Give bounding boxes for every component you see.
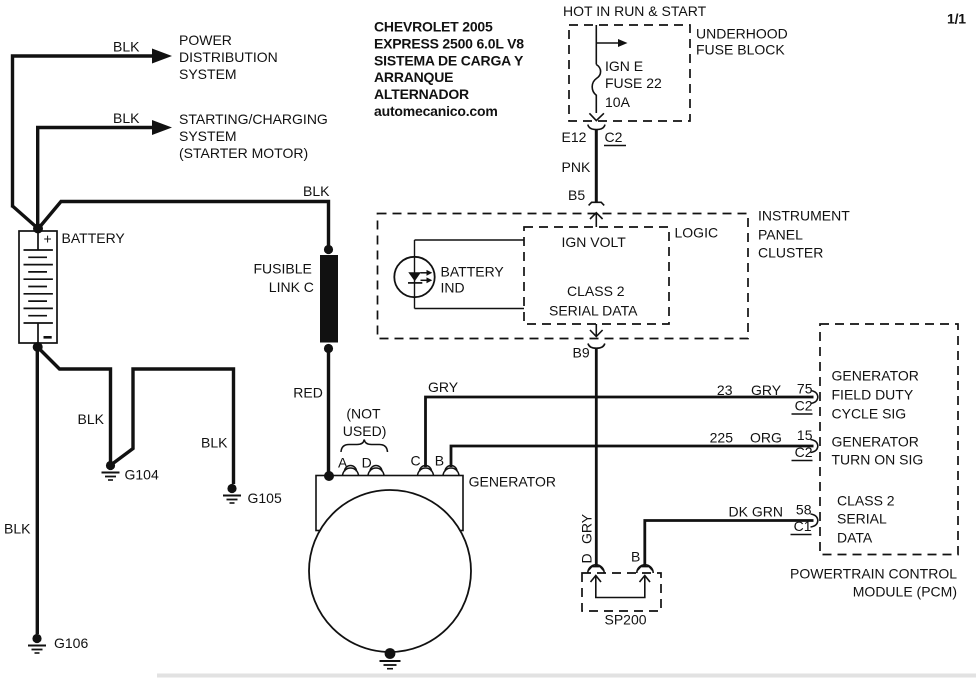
svg-text:C2: C2: [605, 129, 623, 145]
splice SP200: [582, 565, 661, 611]
svg-text:ALTERNADOR: ALTERNADOR: [374, 86, 469, 102]
node generator BAT terminal: [324, 471, 334, 481]
svg-text:FUSIBLE: FUSIBLE: [254, 261, 312, 277]
svg-text:A: A: [338, 455, 348, 471]
svg-text:BATTERY: BATTERY: [62, 230, 126, 246]
svg-text:LINK C: LINK C: [269, 279, 314, 295]
svg-text:B: B: [435, 453, 444, 469]
svg-text:225: 225: [710, 430, 734, 446]
svg-text:BLK: BLK: [113, 39, 140, 55]
label UNDERHOOD FUSE BLOCK: [696, 26, 788, 58]
svg-text:ARRANQUE: ARRANQUE: [374, 69, 453, 85]
svg-text:USED): USED): [343, 423, 387, 439]
svg-text:CLASS 2: CLASS 2: [567, 283, 625, 299]
svg-text:automecanico.com: automecanico.com: [374, 103, 498, 119]
svg-text:DATA: DATA: [837, 530, 873, 546]
label BATTERY IND: [441, 264, 505, 296]
generator pin C terminal: [418, 466, 434, 477]
svg-text:CLASS 2: CLASS 2: [837, 493, 895, 509]
svg-text:SERIAL: SERIAL: [837, 511, 887, 527]
wire ORG generator B to PCM: [451, 446, 814, 467]
wire BLK to power distribution system: [13, 49, 173, 229]
svg-text:EXPRESS 2500 6.0L V8: EXPRESS 2500 6.0L V8: [374, 35, 524, 51]
svg-text:G106: G106: [54, 635, 88, 651]
wire BLK battery to G106: [36, 347, 39, 634]
svg-text:HOT IN RUN & START: HOT IN RUN & START: [563, 3, 707, 19]
wire BLK G104 to G105: [112, 369, 234, 484]
svg-text:BLK: BLK: [4, 521, 31, 537]
fusible link C: [320, 245, 338, 353]
ground G104: [102, 461, 159, 483]
svg-text:CYCLE SIG: CYCLE SIG: [832, 406, 907, 422]
svg-text:CLUSTER: CLUSTER: [758, 245, 823, 261]
svg-text:G104: G104: [125, 467, 159, 483]
wire GRY generator C to PCM: [426, 397, 814, 467]
svg-text:STARTING/CHARGING: STARTING/CHARGING: [179, 111, 328, 127]
svg-text:SYSTEM: SYSTEM: [179, 66, 237, 82]
generator pin A terminal: [343, 466, 359, 477]
ground G106: [28, 634, 88, 653]
title block text: [374, 19, 524, 120]
label CLASS 2 SERIAL DATA (cluster): [549, 283, 638, 319]
svg-text:BLK: BLK: [78, 411, 105, 427]
svg-text:INSTRUMENT: INSTRUMENT: [758, 208, 850, 224]
svg-text:BLK: BLK: [201, 435, 228, 451]
svg-text:+: +: [44, 231, 52, 247]
wire battery ind to logic box: [415, 240, 525, 309]
svg-text:BLK: BLK: [113, 110, 140, 126]
PCM pin 75 C2 connector: [811, 391, 818, 404]
svg-text:(STARTER MOTOR): (STARTER MOTOR): [179, 145, 308, 161]
svg-text:TURN ON SIG: TURN ON SIG: [832, 452, 924, 468]
powertrain control module box: [820, 324, 958, 555]
svg-text:75: 75: [797, 381, 813, 397]
svg-text:PNK: PNK: [562, 159, 591, 175]
svg-text:LOGIC: LOGIC: [675, 225, 719, 241]
brace over unused pins: [341, 440, 388, 453]
svg-text:(NOT: (NOT: [346, 406, 381, 422]
label CLASS 2 SERIAL DATA (pcm): [837, 493, 895, 546]
PCM pin 58 C1 connector: [811, 514, 818, 527]
label (NOT USED): [343, 406, 387, 440]
svg-text:IGN VOLT: IGN VOLT: [562, 234, 627, 250]
wire class 2 serial data B9 to SP200: [595, 348, 598, 566]
label GENERATOR FIELD DUTY CYCLE SIG: [832, 368, 919, 422]
logic box: [524, 227, 669, 324]
svg-text:B5: B5: [568, 187, 585, 203]
svg-text:10A: 10A: [605, 94, 631, 110]
svg-text:GENERATOR: GENERATOR: [832, 434, 919, 450]
svg-text:B: B: [631, 549, 640, 565]
node battery negative junction: [33, 342, 43, 352]
ground G105: [223, 484, 282, 506]
wire BLK battery to G104: [38, 348, 111, 463]
label C2 (underlined): [604, 129, 626, 146]
svg-text:RED: RED: [293, 385, 323, 401]
svg-text:E12: E12: [562, 129, 587, 145]
svg-text:GRY: GRY: [428, 379, 459, 395]
svg-text:BLK: BLK: [303, 183, 330, 199]
generator pin D terminal: [368, 466, 384, 477]
svg-text:IND: IND: [441, 280, 465, 296]
PCM pin 15 C2 connector: [811, 440, 818, 453]
svg-text:GENERATOR: GENERATOR: [832, 368, 919, 384]
svg-text:GENERATOR: GENERATOR: [469, 474, 556, 490]
svg-text:MODULE (PCM): MODULE (PCM): [853, 584, 957, 600]
battery indicator lamp U1: [394, 240, 434, 309]
label GENERATOR TURN ON SIG: [832, 434, 924, 468]
starting/charging system label: [179, 111, 328, 161]
svg-text:SP200: SP200: [605, 612, 647, 628]
label POWERTRAIN CONTROL MODULE (PCM): [790, 566, 957, 600]
fuse IGN E FUSE 22 10A: [592, 65, 600, 114]
svg-text:FUSE BLOCK: FUSE BLOCK: [696, 42, 785, 58]
svg-text:GRY: GRY: [751, 382, 782, 398]
connector B9 exit arrow: [588, 324, 605, 348]
svg-text:CHEVROLET 2005: CHEVROLET 2005: [374, 19, 493, 35]
svg-text:15: 15: [797, 427, 813, 443]
battery symbol: [19, 231, 57, 344]
svg-text:DK GRN: DK GRN: [729, 504, 783, 520]
generator ground: [380, 648, 401, 669]
svg-text:POWER: POWER: [179, 32, 232, 48]
label INSTRUMENT PANEL CLUSTER: [758, 208, 850, 261]
node battery positive junction: [33, 224, 43, 234]
svg-text:C2: C2: [795, 444, 813, 460]
svg-text:FUSE 22: FUSE 22: [605, 75, 662, 91]
instrument panel cluster box: [378, 214, 749, 339]
generator pin B terminal: [443, 466, 459, 477]
svg-text:DISTRIBUTION: DISTRIBUTION: [179, 49, 278, 65]
wire RED fusible link to generator: [327, 352, 330, 472]
svg-text:IGN E: IGN E: [605, 58, 643, 74]
svg-text:C1: C1: [794, 518, 812, 534]
svg-text:GRY: GRY: [579, 513, 595, 544]
svg-text:D: D: [362, 455, 372, 471]
svg-text:B9: B9: [573, 345, 590, 361]
svg-text:G105: G105: [248, 490, 282, 506]
svg-text:BATTERY: BATTERY: [441, 264, 505, 280]
svg-text:POWERTRAIN CONTROL: POWERTRAIN CONTROL: [790, 566, 957, 582]
wire BLK battery to fusible link: [38, 202, 329, 247]
label D GRY (rotated): [579, 513, 595, 563]
svg-text:58: 58: [796, 502, 812, 518]
label C2 (pin 15, underlined): [792, 444, 813, 461]
svg-text:23: 23: [717, 382, 733, 398]
svg-text:FIELD DUTY: FIELD DUTY: [832, 387, 914, 403]
wire feed inside fuse block: [596, 25, 627, 65]
wire BLK to starting/charging system: [38, 120, 172, 229]
svg-text:SERIAL DATA: SERIAL DATA: [549, 303, 638, 319]
wire DK GRN SP200 to PCM: [645, 521, 814, 567]
svg-text:SYSTEM: SYSTEM: [179, 128, 237, 144]
underhood fuse block box: [569, 25, 690, 121]
connector E12/C2 arrow: [588, 113, 605, 129]
svg-text:C2: C2: [795, 398, 813, 414]
label IGN E FUSE 22 10A: [605, 58, 662, 110]
bottom separator bar: [157, 674, 976, 678]
generator body: [309, 476, 471, 653]
svg-text:1/1: 1/1: [947, 11, 966, 27]
label FUSIBLE LINK C: [254, 261, 314, 296]
label C1 (underlined): [791, 518, 812, 535]
svg-text:PANEL: PANEL: [758, 227, 803, 243]
svg-text:ORG: ORG: [750, 430, 782, 446]
connector B5: [589, 202, 605, 227]
power distribution system label: [179, 32, 278, 82]
svg-text:UNDERHOOD: UNDERHOOD: [696, 26, 788, 42]
svg-text:SISTEMA DE CARGA Y: SISTEMA DE CARGA Y: [374, 52, 524, 68]
wire PNK: [595, 130, 598, 202]
svg-text:C: C: [411, 453, 421, 469]
label C2 (pin 75, underlined): [792, 398, 813, 415]
svg-text:D: D: [579, 553, 595, 563]
